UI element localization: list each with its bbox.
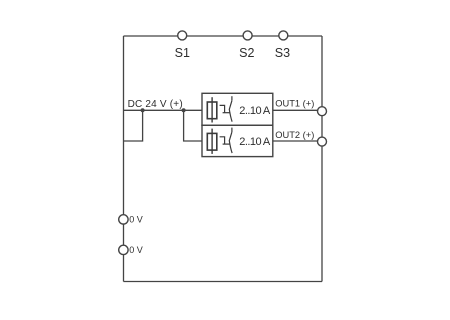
terminal OUT2 [318, 137, 327, 146]
svg-text:S2: S2 [239, 46, 254, 60]
fuse F1 [207, 97, 217, 122]
thermal release 2 [220, 137, 231, 144]
wire DC 24 V feed [124, 109, 203, 111]
ECB channel 1 box U1 [202, 93, 273, 125]
svg-text:2..10 A: 2..10 A [239, 136, 271, 148]
wire top rail [124, 35, 323, 37]
svg-text:0 V: 0 V [129, 245, 143, 255]
svg-text:OUT2 (+): OUT2 (+) [275, 130, 314, 140]
terminal S2 [243, 31, 252, 40]
svg-text:S1: S1 [175, 46, 190, 60]
terminal 0V lower [119, 245, 128, 254]
node J2 [182, 108, 186, 112]
terminal S1 [178, 31, 187, 40]
switch blade 1 [229, 96, 232, 122]
fuse F2 [207, 129, 217, 154]
wire branch to channel 2 [184, 110, 202, 141]
svg-text:0 V: 0 V [129, 215, 143, 225]
terminal 0V upper [119, 215, 128, 224]
ECB channel 2 box U2 [202, 125, 273, 156]
svg-text:OUT1 (+): OUT1 (+) [275, 98, 314, 108]
terminal OUT1 [318, 107, 327, 116]
thermal release 1 [220, 105, 231, 112]
svg-text:DC 24 V (+): DC 24 V (+) [128, 99, 183, 110]
wire bottom rail [124, 281, 323, 283]
wire right rail [321, 36, 323, 282]
wire OUT2 [273, 140, 322, 142]
svg-text:2..10 A: 2..10 A [239, 105, 271, 117]
wire J1 loop down [124, 110, 143, 141]
terminal S3 [279, 31, 288, 40]
svg-text:S3: S3 [275, 46, 290, 60]
node J1 [141, 108, 145, 112]
wire left rail [123, 36, 125, 282]
switch blade 2 [229, 128, 232, 154]
wire OUT1 [273, 109, 322, 111]
